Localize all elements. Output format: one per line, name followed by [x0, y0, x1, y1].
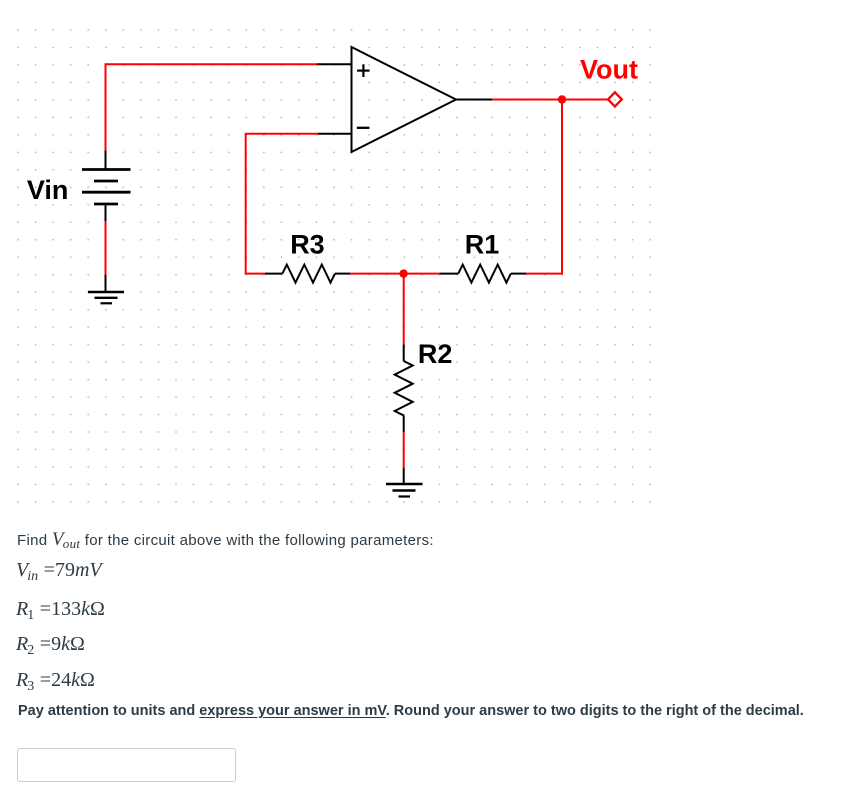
ground (Vin) — [88, 292, 124, 303]
svg-text:Vin: Vin — [27, 175, 69, 205]
resistor R1 — [440, 265, 527, 283]
wire R1 to output node — [526, 100, 562, 274]
node A (junction dot) — [399, 269, 407, 277]
resistor R3 — [265, 265, 350, 283]
wire op-amp output — [456, 99, 608, 101]
svg-text:R2: R2 — [418, 339, 453, 369]
wire Vin+ to op-amp + input — [106, 64, 353, 168]
wire node A to R1 — [404, 273, 440, 275]
wire node A to R2 — [403, 275, 405, 345]
ground (R2) — [386, 484, 423, 497]
wire battery- to ground — [105, 205, 107, 291]
node Vout (junction dot) — [558, 95, 566, 103]
op-amp — [352, 47, 457, 152]
svg-text:R1: R1 — [465, 229, 500, 259]
battery Vin — [82, 170, 131, 205]
svg-text:R3: R3 — [290, 229, 325, 259]
wire R3 to node A — [350, 273, 403, 275]
wire R2 to ground — [403, 432, 405, 483]
output terminal diamond Vout — [608, 92, 622, 106]
wire op-amp - input to feedback node — [246, 134, 352, 274]
svg-text:Vout: Vout — [580, 54, 638, 84]
resistor R2 — [395, 345, 413, 432]
